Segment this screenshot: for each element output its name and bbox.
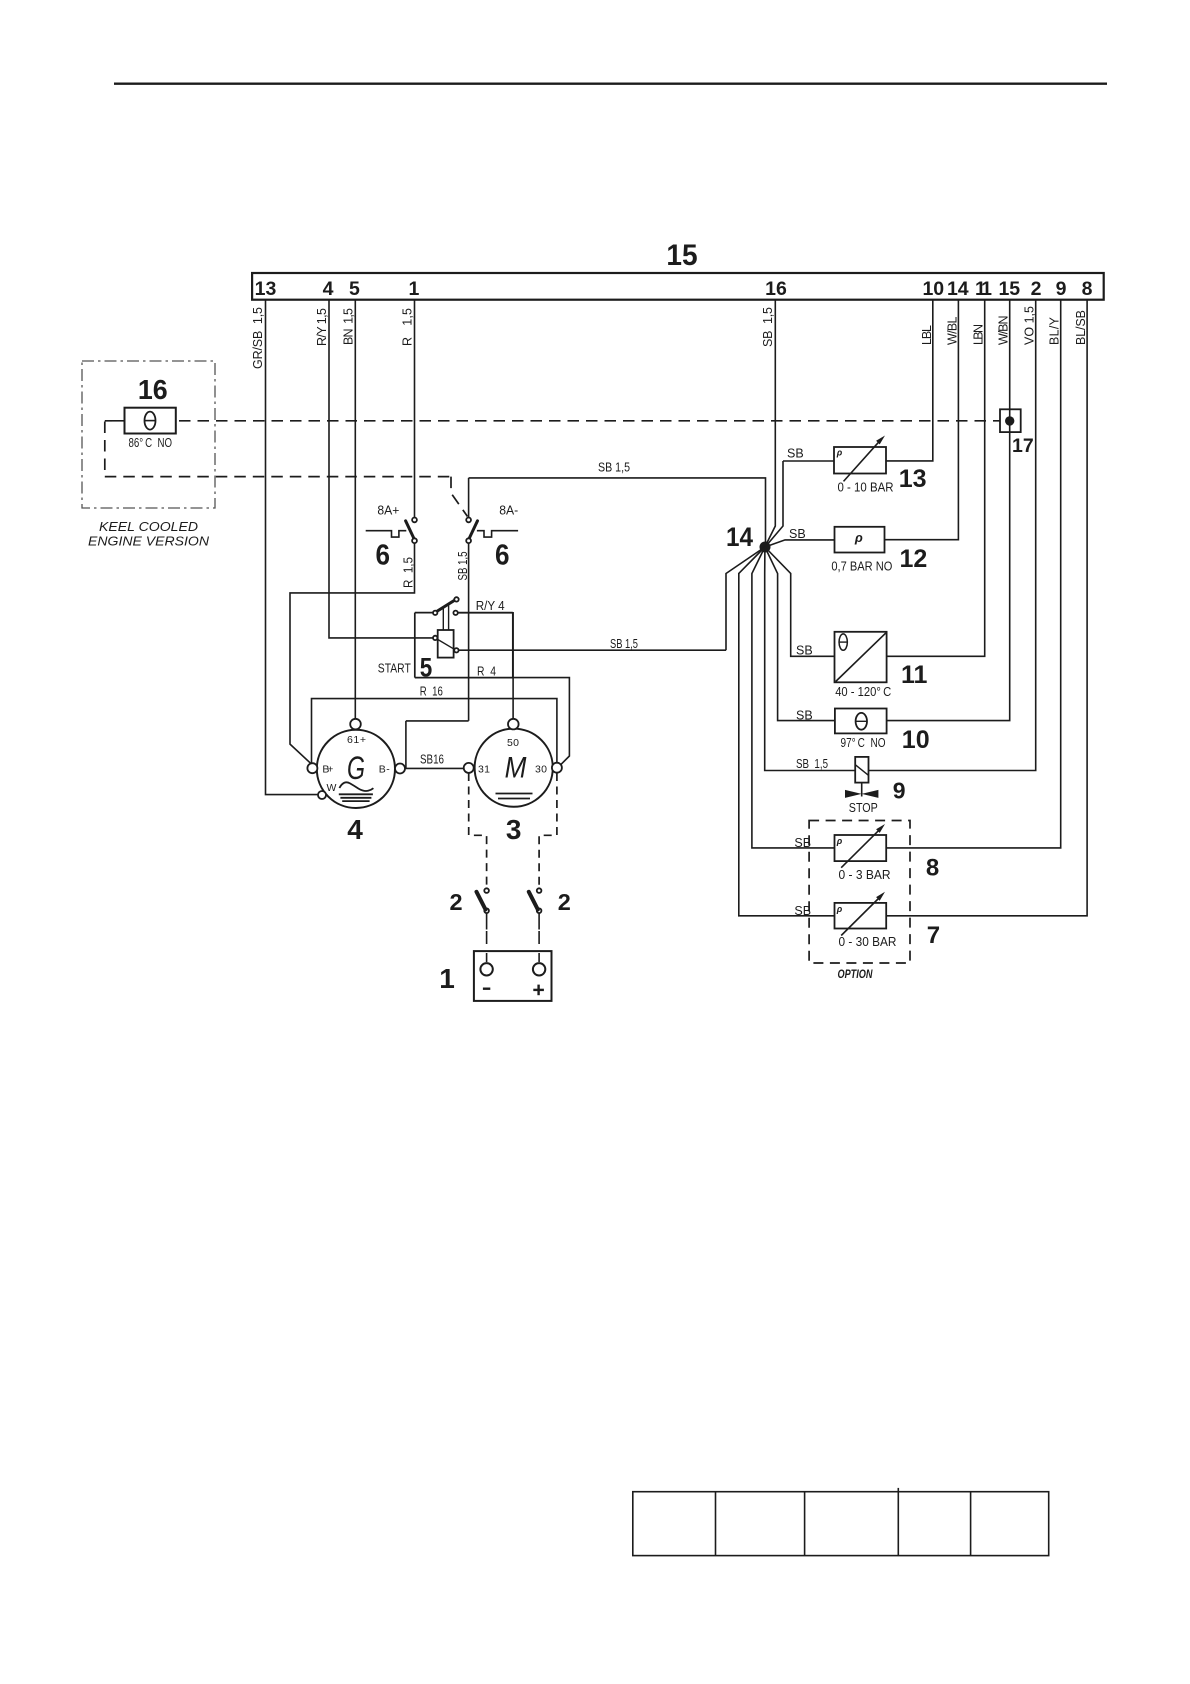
svg-text:R 4: R 4	[477, 665, 496, 679]
svg-text:G: G	[347, 750, 365, 786]
svg-text:R 16: R 16	[420, 685, 443, 699]
svg-text:SB 1,5: SB 1,5	[761, 307, 775, 347]
svg-text:0 - 30 BAR: 0 - 30 BAR	[839, 935, 897, 949]
svg-text:14: 14	[947, 278, 969, 300]
svg-text:OPTION: OPTION	[838, 967, 873, 981]
svg-text:2: 2	[1031, 278, 1042, 300]
svg-text:4: 4	[347, 814, 363, 845]
svg-text:13: 13	[255, 278, 277, 300]
svg-text:R/Y 1,5: R/Y 1,5	[315, 308, 329, 346]
svg-text:LBN: LBN	[972, 324, 986, 345]
svg-text:9: 9	[1056, 278, 1067, 300]
svg-text:17: 17	[1012, 435, 1034, 457]
svg-text:ENGINE VERSION: ENGINE VERSION	[88, 534, 210, 549]
svg-text:1: 1	[408, 278, 419, 300]
svg-text:8A+: 8A+	[377, 504, 399, 518]
svg-text:86° C NO: 86° C NO	[129, 436, 173, 450]
svg-text:10: 10	[902, 726, 930, 754]
svg-text:SB 1,5: SB 1,5	[456, 551, 470, 580]
svg-text:ρ: ρ	[836, 448, 843, 458]
svg-text:8A-: 8A-	[499, 504, 518, 518]
svg-text:ρ: ρ	[836, 836, 843, 846]
svg-text:30: 30	[535, 763, 547, 775]
svg-text:16: 16	[138, 374, 168, 405]
svg-text:5: 5	[349, 278, 360, 300]
svg-text:50: 50	[507, 737, 519, 749]
svg-text:W/BN: W/BN	[997, 316, 1011, 345]
svg-text:SB: SB	[796, 644, 813, 658]
svg-text:10: 10	[922, 278, 944, 300]
svg-text:2: 2	[450, 889, 463, 915]
svg-text:6: 6	[495, 540, 510, 572]
svg-text:STOP: STOP	[849, 801, 878, 815]
svg-text:SB: SB	[796, 709, 813, 723]
svg-text:2: 2	[558, 889, 571, 915]
svg-text:BN 1,5: BN 1,5	[342, 308, 356, 345]
svg-text:ρ: ρ	[836, 904, 843, 914]
svg-text:8: 8	[926, 855, 939, 882]
svg-text:B+: B+	[322, 763, 333, 775]
svg-text:W/BL: W/BL	[945, 316, 959, 345]
svg-text:13: 13	[899, 465, 927, 493]
svg-text:VO 1,5: VO 1,5	[1023, 306, 1037, 345]
svg-text:SB: SB	[789, 527, 806, 541]
svg-text:ρ: ρ	[854, 530, 863, 545]
svg-text:1: 1	[439, 963, 455, 994]
svg-text:SB 1,5: SB 1,5	[598, 461, 630, 475]
svg-text:40 - 120° C: 40 - 120° C	[835, 685, 891, 699]
svg-text:9: 9	[893, 778, 906, 804]
svg-text:16: 16	[765, 278, 787, 300]
svg-text:SB16: SB16	[420, 753, 444, 767]
svg-text:6: 6	[376, 540, 391, 572]
svg-text:14: 14	[726, 522, 753, 552]
svg-text:SB 1,5: SB 1,5	[796, 757, 828, 771]
svg-text:SB: SB	[794, 836, 811, 850]
svg-text:M: M	[505, 751, 527, 784]
svg-text:5: 5	[420, 653, 433, 683]
svg-text:0 - 10 BAR: 0 - 10 BAR	[838, 481, 894, 495]
svg-text:W: W	[327, 782, 337, 794]
svg-text:4: 4	[323, 278, 334, 300]
svg-text:START: START	[378, 662, 411, 676]
svg-text:R 1,5: R 1,5	[401, 308, 415, 346]
svg-text:0 - 3 BAR: 0 - 3 BAR	[839, 868, 891, 882]
svg-text:B-: B-	[379, 763, 391, 775]
svg-text:15: 15	[666, 239, 697, 272]
svg-text:R/Y 4: R/Y 4	[476, 599, 505, 613]
svg-text:SB: SB	[794, 904, 811, 918]
svg-text:11: 11	[975, 278, 992, 300]
svg-text:BL/Y: BL/Y	[1048, 316, 1062, 345]
svg-text:KEEL COOLED: KEEL COOLED	[99, 519, 198, 534]
svg-text:61+: 61+	[347, 734, 366, 746]
svg-text:0,7 BAR NO: 0,7 BAR NO	[831, 560, 892, 574]
svg-text:97° C NO: 97° C NO	[841, 736, 886, 750]
svg-text:LBL: LBL	[920, 325, 934, 345]
svg-text:R 1,5: R 1,5	[402, 557, 416, 588]
svg-text:BL/SB: BL/SB	[1074, 310, 1088, 345]
svg-text:31: 31	[478, 763, 490, 775]
svg-text:7: 7	[927, 922, 940, 949]
svg-text:SB: SB	[787, 447, 804, 461]
svg-text:SB 1,5: SB 1,5	[610, 637, 638, 651]
svg-text:8: 8	[1082, 278, 1093, 300]
svg-text:12: 12	[900, 545, 928, 573]
svg-text:15: 15	[998, 278, 1020, 300]
svg-text:3: 3	[506, 814, 522, 845]
svg-text:11: 11	[901, 661, 928, 689]
svg-text:GR/SB 1,5: GR/SB 1,5	[251, 307, 265, 369]
